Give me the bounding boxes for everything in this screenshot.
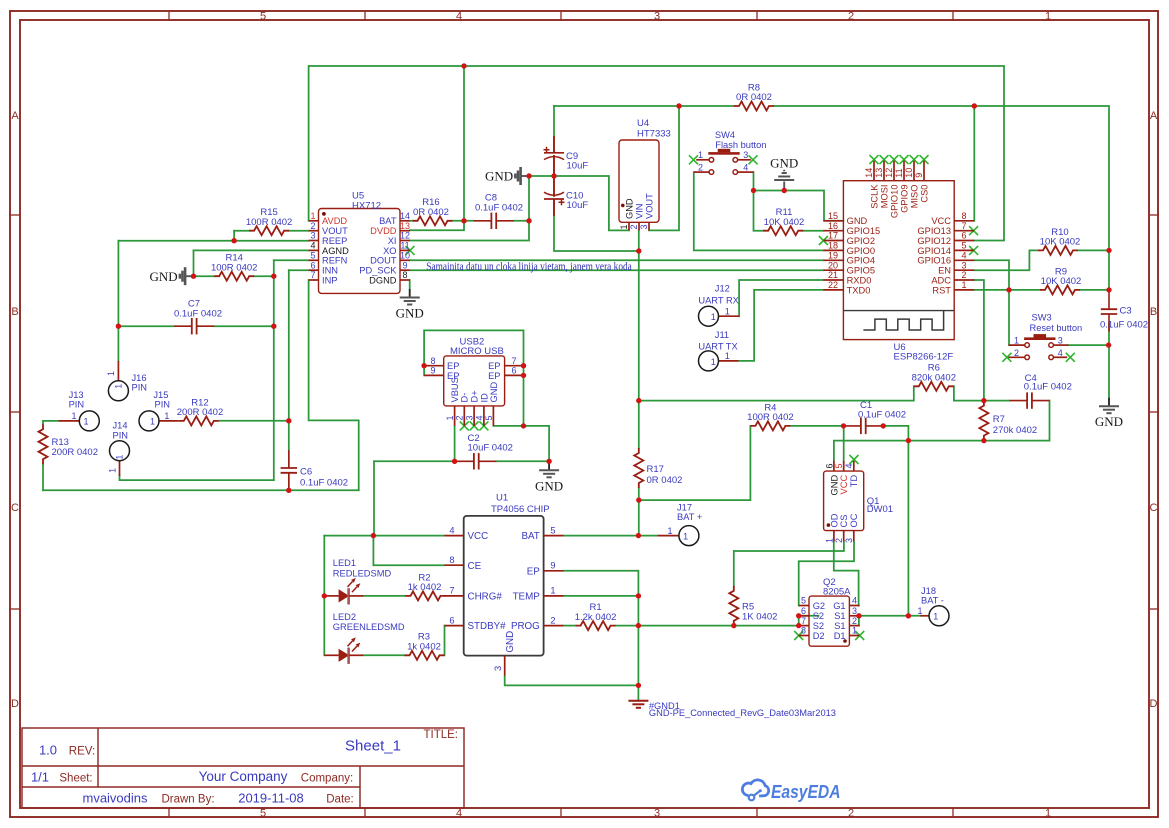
svg-text:D+: D+ xyxy=(470,390,480,402)
junction at (234.1,240.7) xyxy=(231,238,236,243)
svg-text:18: 18 xyxy=(828,241,838,251)
svg-text:5: 5 xyxy=(260,11,266,23)
junction at (324.3,595.9) xyxy=(322,593,327,598)
svg-text:RST: RST xyxy=(932,285,951,295)
svg-text:EP: EP xyxy=(488,361,500,371)
wire reset node to SW3 pin1 xyxy=(1008,290,1010,345)
svg-text:LED2: LED2 xyxy=(333,612,356,622)
svg-text:TD: TD xyxy=(849,475,859,488)
svg-text:A: A xyxy=(11,110,19,122)
svg-text:HX712: HX712 xyxy=(352,200,381,211)
svg-text:Flash button: Flash button xyxy=(715,140,766,150)
svg-text:Samainita datu un cloka linija: Samainita datu un cloka linija vietam, j… xyxy=(426,261,632,273)
svg-text:S1: S1 xyxy=(834,621,845,631)
resistor R7 xyxy=(979,401,988,441)
svg-text:HT7333: HT7333 xyxy=(637,129,671,140)
wire Q1 OD to Q2 G1 xyxy=(834,541,859,605)
svg-text:J18: J18 xyxy=(921,586,936,596)
svg-text:EP: EP xyxy=(447,361,459,371)
svg-text:6: 6 xyxy=(824,464,834,469)
svg-text:J16: J16 xyxy=(132,373,147,383)
svg-text:200R 0402: 200R 0402 xyxy=(52,447,98,458)
wire bat node to R4 xyxy=(639,426,751,500)
svg-text:1k 0402: 1k 0402 xyxy=(408,582,442,593)
svg-text:GPIO14: GPIO14 xyxy=(917,246,951,256)
svg-text:4: 4 xyxy=(961,251,966,261)
svg-text:2: 2 xyxy=(848,11,854,23)
pin J11 UART TX xyxy=(719,360,739,362)
svg-text:3: 3 xyxy=(852,606,857,616)
ground left of R14 xyxy=(186,275,194,277)
svg-text:CS: CS xyxy=(839,515,849,528)
wire EP column xyxy=(563,571,638,686)
wire C10 bottom to VIN rail xyxy=(554,215,639,251)
no-connect X USB2 pin4 ID xyxy=(479,421,488,430)
wire C8-GND node xyxy=(514,220,529,222)
svg-text:CHRG#: CHRG# xyxy=(468,592,503,603)
junction at (424.1,365.7) xyxy=(421,363,426,368)
svg-text:VCC: VCC xyxy=(839,475,849,495)
junction at (974.3,106) xyxy=(972,103,977,108)
svg-text:S2: S2 xyxy=(813,621,824,631)
svg-text:100R 0402: 100R 0402 xyxy=(211,262,257,273)
svg-text:3: 3 xyxy=(465,415,475,420)
resistor R1 xyxy=(576,621,616,630)
svg-text:GND: GND xyxy=(485,169,513,184)
svg-text:3: 3 xyxy=(654,11,660,23)
svg-text:D-: D- xyxy=(460,393,470,403)
svg-text:1.0: 1.0 xyxy=(39,743,57,758)
wire R9 leads xyxy=(1009,289,1040,291)
svg-text:1: 1 xyxy=(725,307,730,317)
svg-text:1: 1 xyxy=(918,606,923,616)
svg-text:C: C xyxy=(11,502,19,514)
antenna symbol in U6 xyxy=(843,310,954,312)
IC Q1 DW01 xyxy=(824,461,894,543)
svg-text:4: 4 xyxy=(743,163,748,173)
no-connect X USB2 pin2 D- xyxy=(460,421,469,430)
resistor R8 xyxy=(734,102,774,111)
junction at (1109,250.4) xyxy=(1106,248,1111,253)
wire Q1 CS to R5 xyxy=(734,541,844,586)
svg-text:10K 0402: 10K 0402 xyxy=(1040,237,1081,248)
svg-text:5: 5 xyxy=(961,241,966,251)
junction at (858.9,615.8) xyxy=(856,613,861,618)
resistor R16 xyxy=(413,216,453,225)
svg-text:22: 22 xyxy=(828,280,838,290)
svg-text:9: 9 xyxy=(550,561,555,571)
svg-text:S1: S1 xyxy=(834,611,845,621)
svg-text:10K 0402: 10K 0402 xyxy=(1041,276,1082,287)
svg-text:GPIO12: GPIO12 xyxy=(917,236,951,246)
svg-text:19: 19 xyxy=(828,251,838,261)
wire LED2 to R3 xyxy=(363,654,404,656)
no-connect X U6 pin11 xyxy=(900,155,909,164)
svg-text:U1: U1 xyxy=(496,493,508,504)
svg-text:0R 0402: 0R 0402 xyxy=(736,92,772,103)
svg-text:R7: R7 xyxy=(993,414,1005,425)
svg-text:C6: C6 xyxy=(300,467,312,478)
wire R1 to S2 row xyxy=(616,625,799,627)
svg-text:VCC: VCC xyxy=(468,531,489,542)
svg-text:GND: GND xyxy=(535,478,563,493)
svg-text:1: 1 xyxy=(114,384,124,389)
wire PROG to R1 xyxy=(563,625,575,627)
ground right column xyxy=(1108,398,1110,407)
svg-text:1: 1 xyxy=(106,371,116,376)
wire INN col to C6 xyxy=(288,270,290,450)
junction at (908.4,615.8) xyxy=(906,613,911,618)
svg-text:1: 1 xyxy=(164,411,169,421)
junction at (784.2,190.5) xyxy=(782,188,787,193)
wire DOUT to GPIO4 xyxy=(410,259,823,261)
wire col 273 to J14 row xyxy=(273,276,275,480)
svg-text:G1: G1 xyxy=(833,601,845,611)
junction at (523.5,425.9) xyxy=(521,423,526,428)
no-connect X USB2 pin3 D+ xyxy=(470,421,479,430)
wire C7 leads xyxy=(118,325,174,327)
svg-text:Drawn By:: Drawn By: xyxy=(161,794,214,806)
svg-text:0.1uF 0402: 0.1uF 0402 xyxy=(1024,382,1072,393)
svg-text:1: 1 xyxy=(1014,336,1019,346)
svg-text:A: A xyxy=(1150,110,1158,122)
IC Q2 8205A xyxy=(799,577,860,646)
svg-text:SW3: SW3 xyxy=(1032,313,1052,323)
wire J14 row xyxy=(120,475,274,480)
svg-text:3: 3 xyxy=(1058,336,1063,346)
junction at (118.4,326.2) xyxy=(116,324,121,329)
wire R16-C8 xyxy=(453,220,474,222)
EasyEDA logo xyxy=(742,780,840,802)
wire VBUS drop xyxy=(454,426,456,461)
ground near C8/C9 xyxy=(521,175,529,177)
svg-text:XI: XI xyxy=(388,236,397,246)
svg-text:UART RX: UART RX xyxy=(698,295,738,305)
wire AGND row xyxy=(194,249,309,251)
svg-text:DOUT: DOUT xyxy=(370,256,397,266)
wire VCC drop to ESP xyxy=(973,106,975,221)
svg-text:J15: J15 xyxy=(153,390,168,400)
pin J18 BAT- xyxy=(920,615,929,617)
svg-text:J12: J12 xyxy=(715,283,730,293)
svg-text:CS0: CS0 xyxy=(919,185,929,203)
svg-text:B: B xyxy=(1150,306,1157,318)
svg-text:D2: D2 xyxy=(813,631,825,641)
svg-text:2: 2 xyxy=(848,808,854,820)
svg-text:GPIO9: GPIO9 xyxy=(899,185,909,213)
wire U1 GND to GND1 xyxy=(505,676,639,686)
wire left col 118 to J16 xyxy=(117,241,119,361)
svg-text:EP: EP xyxy=(527,566,541,577)
IC U6 ESP8266-12F xyxy=(823,161,974,363)
svg-text:BAT +: BAT + xyxy=(677,512,702,522)
svg-text:1: 1 xyxy=(668,526,673,536)
svg-text:10: 10 xyxy=(904,168,914,178)
svg-text:4: 4 xyxy=(474,415,484,420)
svg-text:GPIO15: GPIO15 xyxy=(847,226,881,236)
IC U4 HT7333 xyxy=(619,118,671,230)
svg-text:1: 1 xyxy=(108,468,118,473)
svg-text:OC: OC xyxy=(849,513,859,527)
junction at (554,176) xyxy=(551,173,556,178)
svg-text:INP: INP xyxy=(322,275,338,285)
wire SW4 pin2 to GPIO0 xyxy=(694,172,824,250)
wire BAT-R16 row xyxy=(410,220,413,222)
ground above SW4 node xyxy=(774,179,794,181)
wire C2 row xyxy=(455,460,457,462)
svg-text:1: 1 xyxy=(824,538,834,543)
svg-text:10uF: 10uF xyxy=(567,160,589,171)
capacitor C1 xyxy=(843,425,861,427)
svg-text:5: 5 xyxy=(310,251,315,261)
svg-text:AGND: AGND xyxy=(322,246,349,256)
svg-text:GPIO5: GPIO5 xyxy=(847,266,875,276)
wire TEMP row xyxy=(563,595,638,597)
wire R11 to GPIO15 xyxy=(754,191,764,231)
svg-text:GND: GND xyxy=(770,156,798,171)
svg-text:3: 3 xyxy=(310,231,315,241)
switch SW3 Reset button xyxy=(1025,343,1030,348)
svg-text:8: 8 xyxy=(430,356,435,366)
wire S1 pins tie xyxy=(858,616,860,626)
wire CE link xyxy=(373,536,444,566)
junction at (883.2,425.9) xyxy=(881,423,886,428)
no-connect X Q2 pin1 D1 xyxy=(855,631,864,640)
wire R15 link xyxy=(233,231,235,241)
svg-text:GND: GND xyxy=(505,631,516,653)
svg-text:2: 2 xyxy=(1014,348,1019,358)
svg-text:STDBY#: STDBY# xyxy=(468,621,507,632)
junction at (638.4,535.6) xyxy=(636,533,641,538)
wire C3 to SW3 node xyxy=(1108,323,1110,345)
pin J16 xyxy=(117,361,119,380)
capacitor C7 xyxy=(174,325,192,327)
svg-text:MOSI: MOSI xyxy=(879,185,889,209)
wire S1 to J18 xyxy=(859,615,920,617)
svg-text:2019-11-08: 2019-11-08 xyxy=(238,791,304,806)
svg-text:6: 6 xyxy=(310,260,315,270)
wire bottom row y490 xyxy=(43,489,359,491)
no-connect X Q1 pin4 TD xyxy=(850,455,859,464)
svg-text:6: 6 xyxy=(801,606,806,616)
svg-text:GPIO16: GPIO16 xyxy=(917,256,951,266)
svg-text:14: 14 xyxy=(400,211,410,221)
wire rail node to R9 node xyxy=(1108,250,1110,290)
svg-text:INN: INN xyxy=(322,266,338,276)
svg-text:J14: J14 xyxy=(113,421,128,431)
svg-text:7: 7 xyxy=(961,221,966,231)
svg-text:10: 10 xyxy=(400,251,410,261)
junction at (273.8,326.2) xyxy=(271,324,276,329)
svg-text:6: 6 xyxy=(961,231,966,241)
resistor R6 xyxy=(914,382,954,391)
svg-text:D: D xyxy=(1150,698,1158,710)
svg-text:1: 1 xyxy=(445,415,455,420)
no-connect X U6 pin5 GPIO14 xyxy=(969,246,978,255)
svg-text:16: 16 xyxy=(828,221,838,231)
svg-text:10uF: 10uF xyxy=(567,200,589,211)
svg-text:GPIO2: GPIO2 xyxy=(847,236,875,246)
no-connect X U6 pin9 xyxy=(920,155,929,164)
svg-text:2: 2 xyxy=(852,616,857,626)
no-connect X U6 pin14 xyxy=(870,155,879,164)
junction at (638.8,251) xyxy=(636,248,641,253)
svg-text:1/1: 1/1 xyxy=(31,770,49,785)
wire LED1 to R2 xyxy=(363,595,405,597)
capacitor C3 xyxy=(1108,292,1110,310)
resistor R11 xyxy=(763,226,803,235)
svg-text:1.2k 0402: 1.2k 0402 xyxy=(575,612,617,623)
svg-text:2: 2 xyxy=(310,221,315,231)
wire SW3 pin3 to C3 node xyxy=(1068,344,1108,346)
svg-text:EP: EP xyxy=(488,371,500,381)
wire 3V3 rail y106 xyxy=(554,105,734,107)
svg-text:1: 1 xyxy=(1045,808,1051,820)
svg-text:6: 6 xyxy=(511,366,516,376)
svg-text:S2: S2 xyxy=(813,611,824,621)
svg-text:PROG: PROG xyxy=(511,621,540,632)
svg-text:270k 0402: 270k 0402 xyxy=(993,425,1037,436)
svg-text:D: D xyxy=(11,698,19,710)
pin J15 xyxy=(159,420,178,422)
svg-text:10K 0402: 10K 0402 xyxy=(764,217,805,228)
wire SW3 node to GND xyxy=(1108,345,1110,398)
wire ADC to divider xyxy=(974,280,984,401)
resistor R17 xyxy=(634,448,643,488)
svg-text:7: 7 xyxy=(801,616,806,626)
pin J13 xyxy=(59,420,80,422)
wire R4 to C1 xyxy=(790,425,843,427)
wire GND1 stem xyxy=(637,685,639,700)
svg-text:8: 8 xyxy=(961,211,966,221)
svg-text:D1: D1 xyxy=(834,631,846,641)
svg-text:5: 5 xyxy=(484,415,494,420)
svg-text:0.1uF 0402: 0.1uF 0402 xyxy=(858,409,906,420)
wire C4 to bottom loop xyxy=(834,401,1050,461)
svg-text:0R 0402: 0R 0402 xyxy=(647,475,683,486)
svg-text:15: 15 xyxy=(828,211,838,221)
svg-text:GPIO0: GPIO0 xyxy=(847,246,875,256)
svg-text:EasyEDA: EasyEDA xyxy=(771,782,841,802)
junction at (753.5,190.5) xyxy=(751,188,756,193)
no-connect X U6 pin13 xyxy=(880,155,889,164)
svg-text:PIN: PIN xyxy=(69,400,85,410)
svg-text:PIN: PIN xyxy=(132,383,148,393)
wire SW4 pin4 to gnd node xyxy=(753,172,755,190)
connector USB2 MICRO USB xyxy=(424,336,523,426)
ground under DGND xyxy=(409,289,411,298)
svg-text:4: 4 xyxy=(456,11,462,23)
svg-text:1: 1 xyxy=(933,612,938,622)
svg-text:GPIO13: GPIO13 xyxy=(917,226,951,236)
svg-text:B: B xyxy=(11,306,18,318)
junction at (983.9,440.6) xyxy=(981,438,986,443)
no-connect X Q2 pin8 D2 xyxy=(794,631,803,640)
svg-text:DGND: DGND xyxy=(369,275,397,285)
svg-text:LED1: LED1 xyxy=(333,558,356,568)
svg-text:J17: J17 xyxy=(677,503,692,513)
junction at (523.5,375.4) xyxy=(521,373,526,378)
no-connect X U6 pin7 GPIO13 xyxy=(969,226,978,235)
svg-text:0.1uF 0402: 0.1uF 0402 xyxy=(300,478,348,489)
svg-text:5: 5 xyxy=(834,464,844,469)
junction at (288.8,490.3) xyxy=(286,488,291,493)
svg-text:3: 3 xyxy=(493,666,503,671)
svg-text:1: 1 xyxy=(725,351,730,361)
wire gnd row y190 to ESP GND pin xyxy=(754,191,844,221)
wire J11 to TXD0 xyxy=(738,290,823,361)
svg-text:G2: G2 xyxy=(813,601,825,611)
capacitor C4 xyxy=(1010,400,1028,402)
svg-text:0.1uF 0402: 0.1uF 0402 xyxy=(1100,319,1148,330)
svg-text:0R 0402: 0R 0402 xyxy=(413,207,449,218)
svg-text:Date:: Date: xyxy=(326,794,354,806)
svg-text:GND: GND xyxy=(847,216,868,226)
junction at (523.5,365.7) xyxy=(521,363,526,368)
svg-text:mvaivodins: mvaivodins xyxy=(82,791,148,806)
svg-text:TEMP: TEMP xyxy=(513,592,541,603)
wire R3 up to STDBY xyxy=(444,626,446,656)
svg-text:1: 1 xyxy=(550,586,555,596)
svg-text:GND: GND xyxy=(489,382,499,403)
svg-text:1: 1 xyxy=(150,417,155,427)
ground #GND1 xyxy=(637,700,639,702)
svg-text:TXD0: TXD0 xyxy=(847,285,871,295)
resistor R4 xyxy=(750,421,790,430)
svg-text:Sheet:: Sheet: xyxy=(59,773,92,785)
junction at (983.9,400.6) xyxy=(981,398,986,403)
svg-text:3: 3 xyxy=(961,260,966,270)
svg-text:12: 12 xyxy=(884,168,894,178)
svg-text:VBUS: VBUS xyxy=(450,377,460,402)
svg-text:EN: EN xyxy=(938,266,951,276)
svg-text:PD_SCK: PD_SCK xyxy=(359,266,397,276)
svg-text:21: 21 xyxy=(828,270,838,280)
svg-text:100R 0402: 100R 0402 xyxy=(747,412,793,423)
svg-text:8: 8 xyxy=(402,270,407,280)
capacitor C9 xyxy=(553,136,555,153)
wire R17 links xyxy=(638,401,640,448)
svg-text:3: 3 xyxy=(743,150,748,160)
svg-text:2: 2 xyxy=(455,415,465,420)
junction at (638.8,400.6) xyxy=(636,398,641,403)
junction at (464,220.8) xyxy=(461,218,466,223)
junction at (193.5,276.2) xyxy=(191,274,196,279)
svg-text:1: 1 xyxy=(1045,11,1051,23)
junction at (454.6,461.3) xyxy=(452,459,457,464)
svg-text:7: 7 xyxy=(449,586,454,596)
switch SW4 Flash button xyxy=(709,158,714,163)
svg-text:SW4: SW4 xyxy=(715,130,735,140)
svg-text:7: 7 xyxy=(511,356,516,366)
svg-text:RXD0: RXD0 xyxy=(847,275,872,285)
svg-text:1: 1 xyxy=(683,531,688,541)
wire J12 to RXD0 xyxy=(739,280,823,316)
no-connect X U6 pin10 xyxy=(910,155,919,164)
wire GND row y176 xyxy=(529,176,629,230)
svg-text:100R 0402: 100R 0402 xyxy=(246,217,292,228)
svg-text:VOUT: VOUT xyxy=(322,226,348,236)
junction at (733.8,625.6) xyxy=(731,623,736,628)
wire VCC row U1 xyxy=(324,535,444,537)
junction at (638.8,500.1) xyxy=(636,497,641,502)
wire BAT row to J17 xyxy=(563,535,657,537)
svg-text:10uF 0402: 10uF 0402 xyxy=(468,443,513,454)
svg-text:4: 4 xyxy=(456,808,462,820)
wire C1 right to J18 col xyxy=(883,426,908,616)
wire AVDD rail y66 xyxy=(309,66,1004,241)
junction at (638.4,595.9) xyxy=(636,593,641,598)
